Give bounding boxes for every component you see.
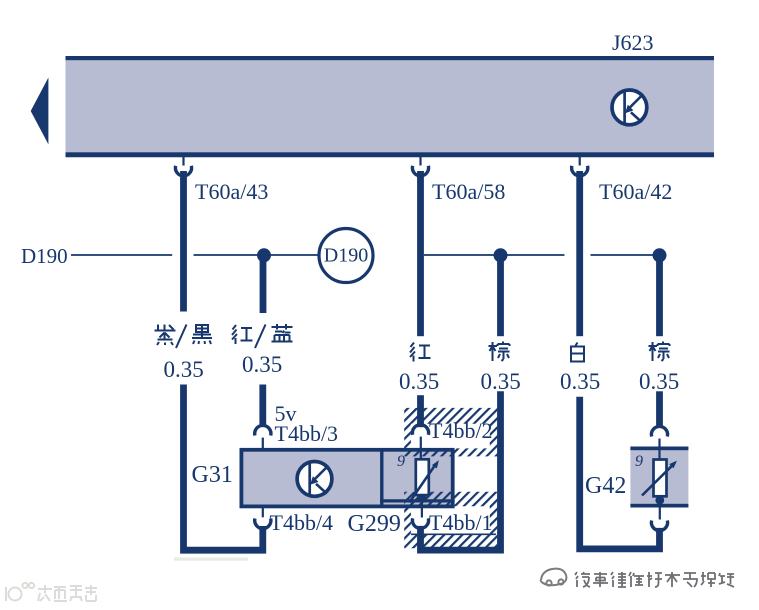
label wire5 colour 白 (571, 343, 584, 362)
svg-text:D190: D190 (21, 244, 68, 268)
G42 junction dot (655, 496, 664, 505)
svg-text:0.35: 0.35 (242, 352, 282, 377)
node line D190 segment 1 (71, 254, 172, 256)
pin T4bb/1 (421, 495, 423, 518)
label wire1 colour 紫/黑 (155, 325, 213, 349)
svg-text:T60a/43: T60a/43 (195, 179, 268, 204)
label wire3 colour 红 (410, 343, 431, 362)
svg-text:0.35: 0.35 (560, 369, 600, 394)
pin T4bb/3 (262, 438, 264, 449)
wechat logo bottom right (541, 569, 567, 586)
wire 3 upper (red from T60a/58) (417, 171, 424, 336)
wire 5 upper (white from T60a/42) (576, 171, 583, 336)
wire 3 lower to T4bb/2 (417, 395, 424, 427)
wire 6 upper (brown from D190 dot) (656, 255, 663, 336)
connector T4bb/1 cup (412, 518, 428, 528)
G42 thermistor body (654, 460, 667, 497)
pin T4bb/2 (420, 437, 422, 460)
pin G42 bottom (659, 496, 661, 519)
svg-text:D190: D190 (324, 245, 368, 267)
G31/G299 divider (380, 449, 383, 507)
sender housing G31/G299 box fill (241, 450, 452, 507)
G299 junction dot (418, 494, 427, 503)
continuation arrow left (31, 78, 49, 145)
G299 section bottom border (380, 499, 455, 502)
G42 box top border (630, 447, 688, 451)
pin T60a/58 (419, 157, 421, 166)
sensor G42 box fill (630, 447, 688, 508)
svg-text:T4bb/3: T4bb/3 (275, 421, 339, 446)
node line D190 segment 3 (424, 254, 565, 256)
connector cup T60a/42 (572, 166, 588, 176)
svg-text:G42: G42 (585, 473, 626, 499)
svg-text:0.35: 0.35 (639, 369, 679, 394)
wire 1 lower L to T4bb/4 (184, 385, 263, 551)
label wire2 colour 红/蓝 (232, 324, 293, 348)
node line D190 segment 2 (194, 254, 321, 256)
connector T4bb/3 cup (255, 425, 271, 435)
wechat account name 汽车维修技术与知识 (575, 572, 734, 587)
svg-text:G31: G31 (192, 462, 233, 488)
node line D190 segment 4 (591, 254, 660, 256)
connector cup T60a/43 (175, 166, 191, 176)
wire 6 lower to G42 top (656, 391, 663, 427)
label wire6 colour 棕 (649, 342, 670, 362)
J623 bar bottom border (66, 152, 715, 157)
svg-text:0.35: 0.35 (481, 369, 521, 394)
shield inner boundary line above bottom band (411, 533, 496, 535)
watermark smudge (174, 558, 248, 561)
junction dot node D190 wire2 (257, 248, 271, 262)
svg-text:0.35: 0.35 (399, 369, 439, 394)
wire 2 lower to T4bb/3 (259, 385, 266, 428)
control unit J623 bar fill (66, 56, 715, 157)
J623 bar top border (66, 56, 715, 60)
J623 internal icon circle-K (612, 90, 647, 125)
svg-text:T4bb/4: T4bb/4 (270, 510, 334, 535)
wire 4 upper (brown from D190 dot) (497, 255, 504, 336)
G299 thermistor arrow (409, 465, 435, 503)
wire 1 upper (violet/black from T60a/43) (180, 171, 187, 312)
pin T4bb/4 (262, 507, 264, 518)
pin T60a/42 (579, 157, 581, 166)
G31 icon circle-K (297, 462, 332, 497)
svg-text:J623: J623 (612, 30, 654, 55)
shield hatch ring around T4bb/2 (404, 408, 497, 457)
G42 thermistor arrow (642, 464, 673, 495)
connector T4bb/4 cup (255, 519, 271, 529)
svg-text:T4bb/1: T4bb/1 (429, 510, 493, 535)
svg-text:0.35: 0.35 (164, 357, 204, 382)
watermark logo bottom left (6, 583, 97, 601)
connector cup T60a/58 (412, 166, 428, 176)
svg-text:G299: G299 (348, 511, 401, 537)
junction dot node D190 wire4 (494, 248, 508, 262)
shield hatch ring around T4bb/1 (404, 492, 497, 548)
G42 box bottom border (630, 504, 688, 508)
pin T60a/43 (182, 157, 184, 166)
wire 2 upper (red/blue from D190 dot) (260, 255, 267, 313)
label wire4 colour 棕 (489, 342, 510, 362)
svg-text:9: 9 (397, 453, 405, 470)
svg-text:9: 9 (635, 453, 643, 470)
svg-text:T60a/42: T60a/42 (599, 179, 672, 204)
connector cup G42 bottom (651, 521, 667, 531)
svg-text:T4bb/2: T4bb/2 (429, 418, 493, 443)
pin G42 top (658, 439, 660, 460)
wire 4 lower L to T4bb/1 (421, 391, 501, 550)
wire 5 lower L to G42 bottom (580, 397, 660, 549)
connector T4bb/2 cup (412, 425, 428, 435)
node circle D190 (319, 229, 373, 283)
svg-text:T60a/58: T60a/58 (432, 179, 505, 204)
junction dot node D190 wire6 (653, 248, 667, 262)
G299 thermistor body (416, 459, 429, 495)
connector cup G42 top (651, 426, 667, 436)
